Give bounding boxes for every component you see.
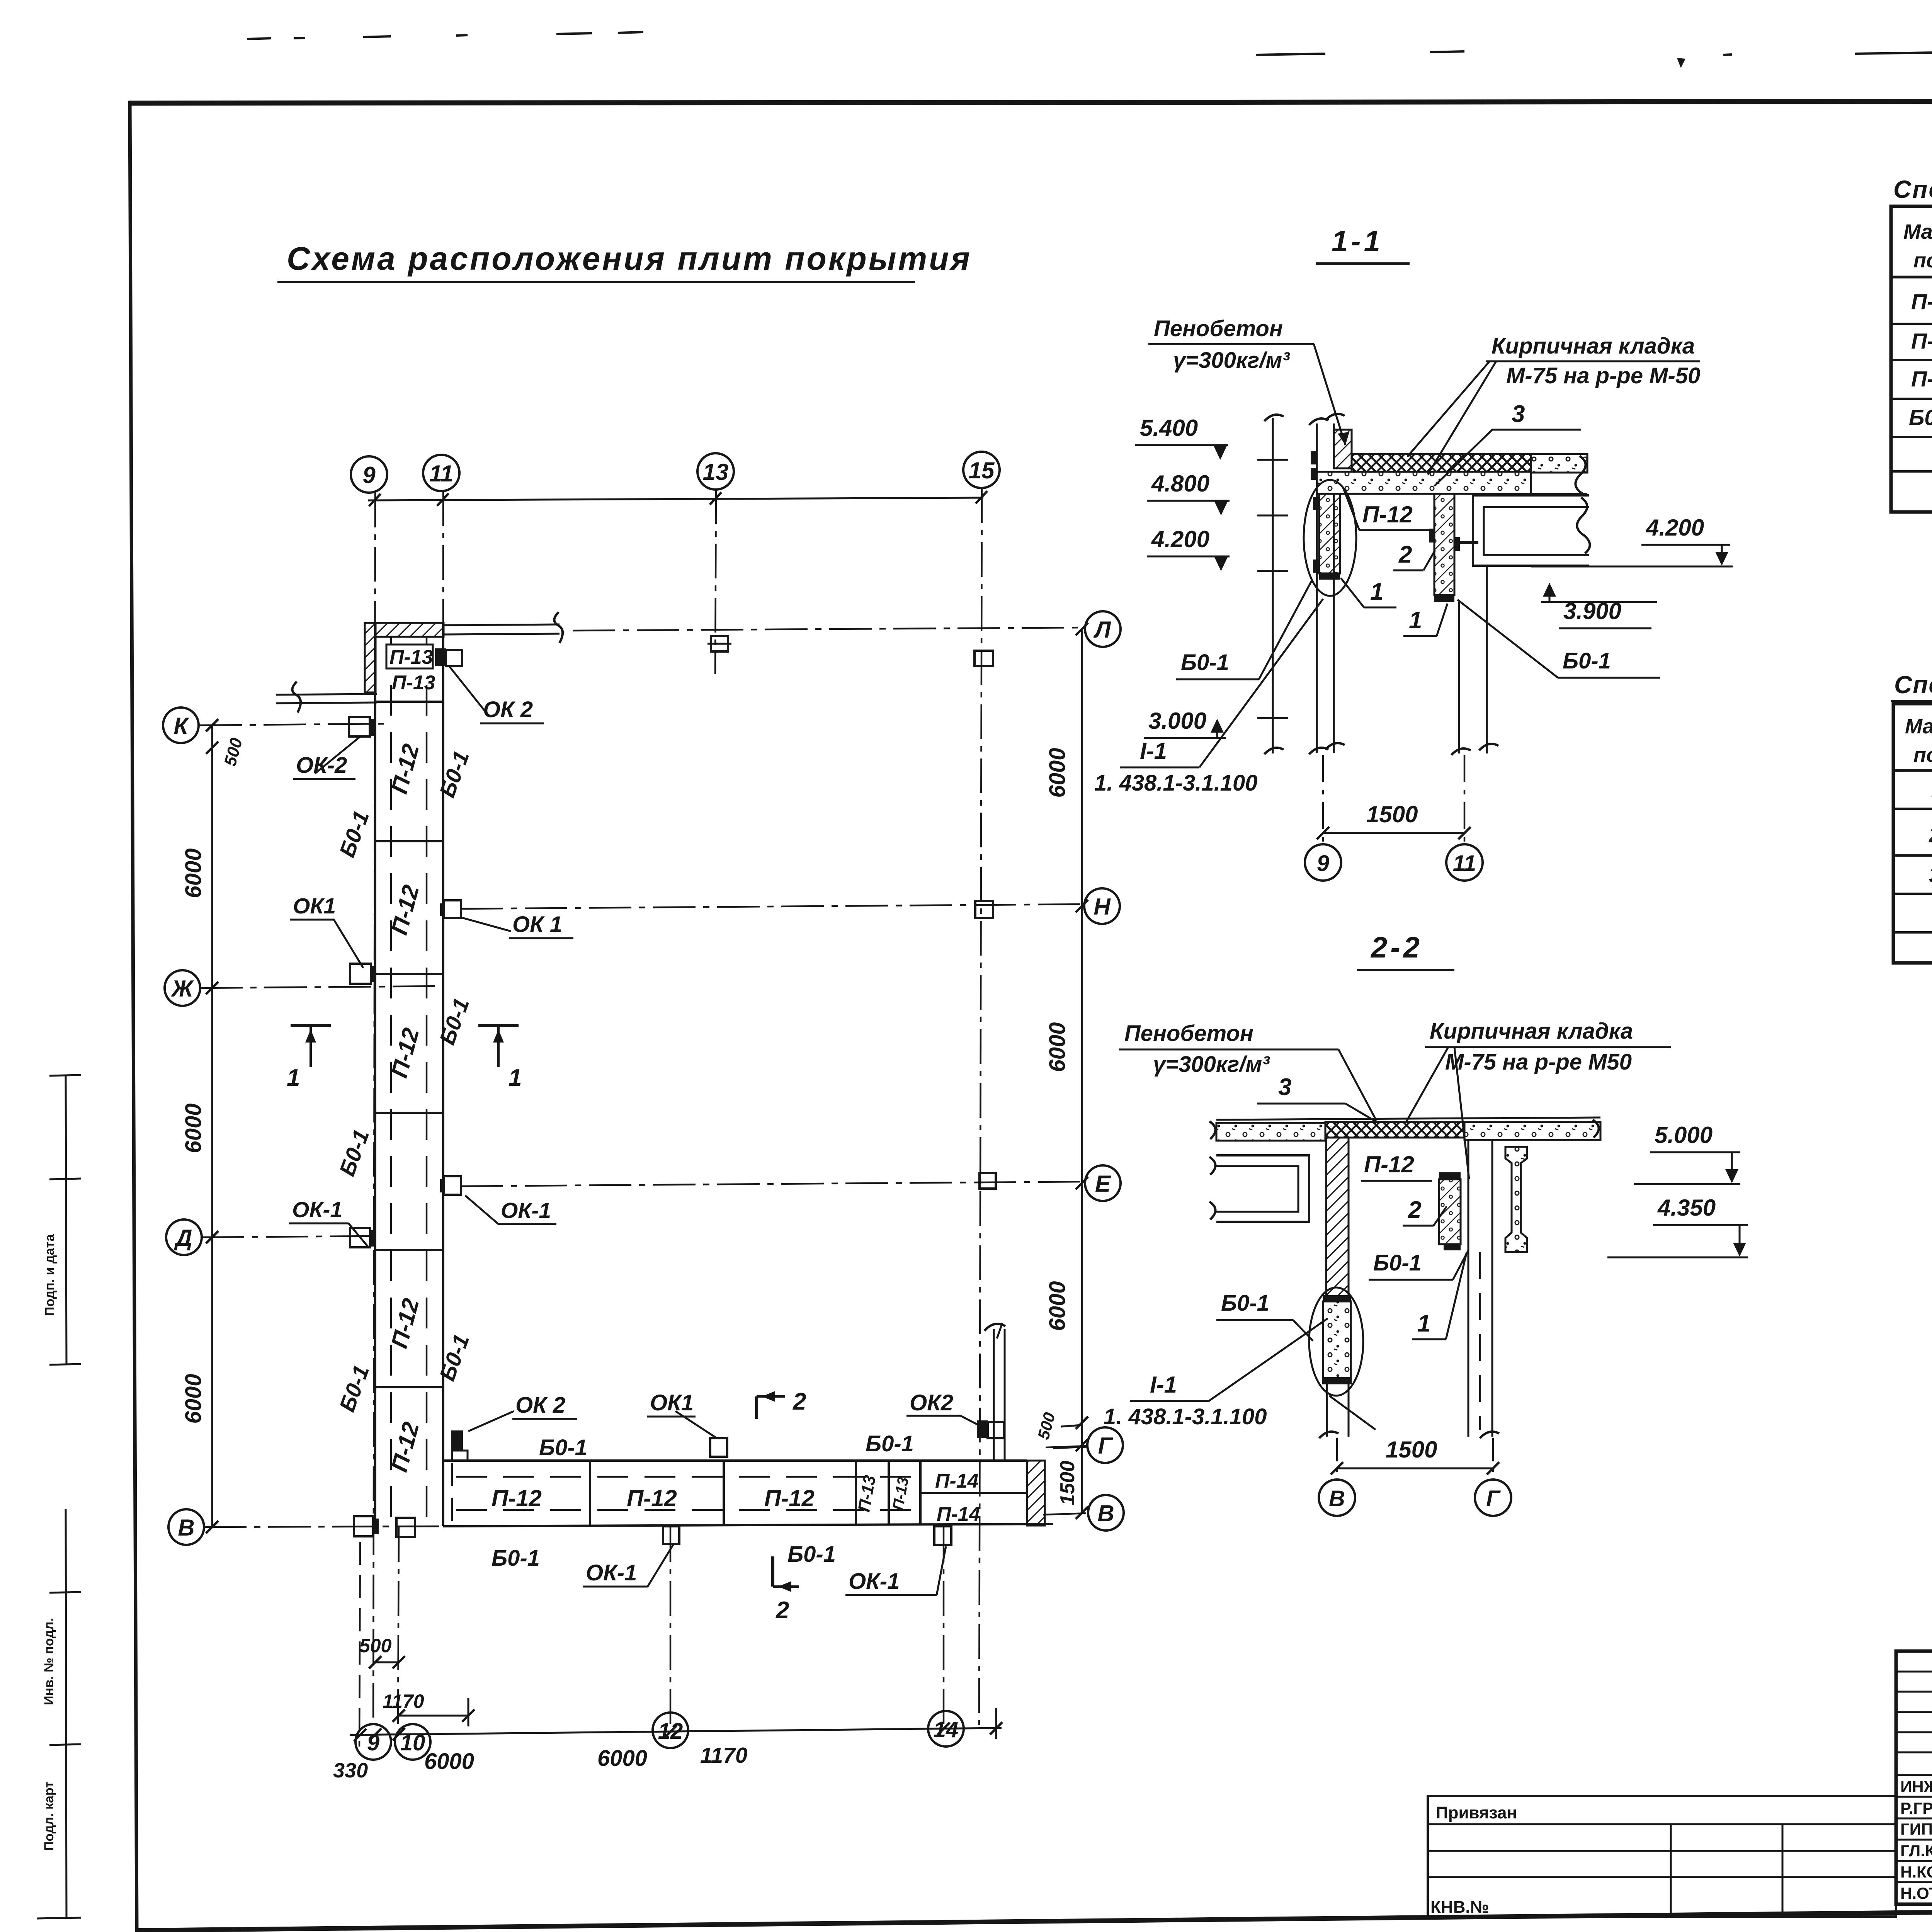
oval around left pier bbox=[1304, 480, 1356, 596]
section mark 1 right bbox=[478, 1024, 519, 1027]
left dimension line K-B bbox=[211, 725, 213, 1528]
svg-text:П-14: П-14 bbox=[1911, 367, 1932, 391]
connector square axis15/L bbox=[975, 651, 993, 666]
svg-text:4.200: 4.200 bbox=[1646, 515, 1704, 541]
axis circle 13 top bbox=[697, 453, 734, 490]
parapet pier hatched bbox=[1334, 430, 1352, 468]
privyazan box bbox=[1428, 1796, 1896, 1917]
right dimension line L-B bbox=[1081, 629, 1083, 1513]
wall lines above right end bbox=[993, 1329, 995, 1461]
svg-text:Привязан: Привязан bbox=[1436, 1803, 1517, 1822]
axis circle Zh bbox=[165, 970, 200, 1006]
table 2 grid bbox=[1893, 704, 1932, 963]
small arrow mark above border bbox=[1677, 58, 1685, 68]
axis K line bbox=[199, 724, 388, 725]
bottom strip dashed lines bbox=[456, 1476, 920, 1478]
axis circle B right bbox=[1088, 1495, 1124, 1531]
svg-text:ОК-1: ОК-1 bbox=[586, 1560, 637, 1585]
wall lines below center pier bbox=[1326, 1383, 1328, 1437]
axis E line bbox=[461, 1182, 1085, 1186]
svg-text:γ=300кг/м³: γ=300кг/м³ bbox=[1153, 1052, 1270, 1077]
svg-text:Д: Д bbox=[173, 1225, 192, 1251]
axis circle 9 top bbox=[351, 456, 387, 493]
right pier hatched 2 bbox=[1439, 1179, 1461, 1244]
svg-text:ОК 1: ОК 1 bbox=[512, 912, 562, 937]
svg-text:2: 2 bbox=[1929, 823, 1932, 847]
bottom slab strip bottom edge bbox=[443, 1524, 1053, 1526]
svg-text:Н.ОТД: Н.ОТД bbox=[1900, 1884, 1932, 1902]
connector OK2 bottom-left of strip bbox=[451, 1430, 463, 1450]
svg-text:1170: 1170 bbox=[383, 1690, 424, 1712]
center pier hatched bbox=[1326, 1138, 1349, 1301]
svg-text:15: 15 bbox=[969, 457, 995, 483]
bottom dim 500 bbox=[373, 1662, 400, 1663]
svg-text:1. 438.1-3.1.100: 1. 438.1-3.1.100 bbox=[1094, 770, 1257, 796]
svg-text:I-1: I-1 bbox=[1150, 1372, 1177, 1398]
slab concrete right bbox=[1464, 1122, 1600, 1140]
oval around center pier bbox=[1309, 1287, 1363, 1396]
axis circle B left bbox=[168, 1509, 204, 1545]
sheet left border bbox=[130, 101, 137, 1931]
svg-text:4.800: 4.800 bbox=[1151, 471, 1209, 497]
left beam BO-1 side view bbox=[1216, 1155, 1309, 1222]
svg-text:3: 3 bbox=[1512, 401, 1525, 427]
svg-text:Б0-1: Б0-1 bbox=[539, 1435, 587, 1460]
svg-text:П-14: П-14 bbox=[937, 1503, 980, 1526]
beam BO-1 stub along axis K bbox=[276, 694, 377, 695]
connector square axis15/N bbox=[975, 901, 993, 918]
top scan-edge dashes bbox=[247, 32, 1932, 55]
elevation 3.900 right bbox=[1541, 601, 1657, 603]
connector OK-1 at axis E bbox=[444, 1176, 461, 1195]
P-14 cell divider bbox=[920, 1492, 1027, 1494]
svg-text:ОК-1: ОК-1 bbox=[501, 1198, 551, 1223]
svg-text:1: 1 bbox=[1417, 1310, 1430, 1337]
svg-text:Подл. карт: Подл. карт bbox=[42, 1781, 56, 1851]
axis circle 14 bottom bbox=[928, 1711, 964, 1747]
svg-text:П-13: П-13 bbox=[392, 672, 435, 694]
axis circle B of section bbox=[1319, 1480, 1355, 1516]
svg-text:поз.: поз. bbox=[1913, 743, 1932, 767]
svg-text:6000: 6000 bbox=[1045, 748, 1070, 798]
axis circle G bbox=[1087, 1427, 1123, 1463]
svg-text:Б0-1: Б0-1 bbox=[787, 1542, 836, 1567]
bottom dim 1170 bbox=[399, 1715, 468, 1717]
svg-text:1500: 1500 bbox=[1056, 1461, 1079, 1505]
axis 10 vertical stub bottom bbox=[398, 1527, 399, 1727]
axis N line bbox=[461, 904, 1084, 909]
beam I-section bbox=[1505, 1147, 1527, 1252]
svg-text:Подп. и дата: Подп. и дата bbox=[43, 1234, 57, 1316]
svg-text:2: 2 bbox=[793, 1388, 806, 1415]
slab strip inner dashed lines bbox=[390, 638, 392, 1524]
small dim 500 right above G bbox=[1053, 1447, 1088, 1448]
axis 13 vertical line bbox=[715, 490, 716, 674]
label 1 below oval bbox=[1329, 1396, 1376, 1430]
left margin ticks and vertical rule bbox=[37, 1075, 81, 1918]
axis circle N bbox=[1084, 888, 1120, 924]
svg-text:9: 9 bbox=[1317, 851, 1329, 876]
axis circle 10 bottom bbox=[395, 1724, 430, 1760]
svg-text:1: 1 bbox=[287, 1065, 300, 1091]
svg-text:4.200: 4.200 bbox=[1151, 526, 1209, 552]
axis 12 line bottom bbox=[670, 1527, 672, 1731]
svg-text:14: 14 bbox=[934, 1717, 959, 1742]
bottom strip right wall hatch bbox=[1027, 1461, 1045, 1526]
axis circle 15 top bbox=[963, 452, 1000, 488]
connector OK2 bottom right bbox=[977, 1420, 988, 1438]
bottom main dimension chain bbox=[350, 1728, 1002, 1735]
axis circle 11 top bbox=[423, 455, 459, 491]
svg-text:1: 1 bbox=[1409, 607, 1422, 634]
svg-text:П-12: П-12 bbox=[1911, 289, 1932, 314]
svg-text:3: 3 bbox=[1929, 863, 1932, 888]
axis circle 12 bottom bbox=[653, 1713, 688, 1748]
svg-text:1170: 1170 bbox=[700, 1743, 748, 1768]
svg-text:Ж: Ж bbox=[170, 976, 194, 1002]
svg-text:Марка: Марка bbox=[1905, 715, 1932, 738]
svg-text:ОК1: ОК1 bbox=[650, 1390, 694, 1415]
axis stems 2-2 bbox=[1336, 1438, 1338, 1475]
svg-text:Б0-1: Б0-1 bbox=[1221, 1291, 1269, 1316]
title block outer bbox=[1896, 1651, 1932, 1904]
wall vertical lines bbox=[1316, 423, 1318, 753]
top dimension line 9-15 bbox=[368, 498, 983, 500]
svg-text:поз.: поз. bbox=[1913, 249, 1932, 272]
svg-text:П-12: П-12 bbox=[764, 1485, 815, 1511]
svg-text:П-12: П-12 bbox=[627, 1485, 677, 1511]
svg-text:1: 1 bbox=[1370, 578, 1383, 605]
svg-text:330: 330 bbox=[333, 1759, 368, 1782]
axis D line bbox=[202, 1236, 375, 1237]
axis circle K bbox=[163, 707, 199, 743]
svg-text:ОК-1: ОК-1 bbox=[292, 1197, 342, 1222]
sheet bottom border bbox=[135, 1904, 1932, 1930]
svg-text:Г: Г bbox=[1098, 1433, 1114, 1459]
svg-text:Кирпичная кладка: Кирпичная кладка bbox=[1430, 1019, 1633, 1044]
svg-text:Спецификация стальных элемен: Спецификация стальных элементов креплени… bbox=[1894, 671, 1932, 699]
svg-text:Кирпичная кладка: Кирпичная кладка bbox=[1492, 333, 1695, 359]
svg-text:ОК-2: ОК-2 bbox=[296, 753, 347, 778]
svg-text:П-12: П-12 bbox=[492, 1485, 542, 1511]
svg-text:П-14: П-14 bbox=[935, 1470, 979, 1492]
axis circle D bbox=[166, 1219, 202, 1255]
svg-text:3.000: 3.000 bbox=[1148, 708, 1206, 734]
connector square axis15/E bbox=[980, 1173, 996, 1189]
svg-text:2: 2 bbox=[1398, 541, 1412, 568]
slab strip right edge bbox=[442, 623, 444, 1526]
svg-text:ГЛ.КОНСТ: ГЛ.КОНСТ bbox=[1900, 1842, 1932, 1860]
axis circle L bbox=[1085, 611, 1121, 647]
svg-text:В: В bbox=[178, 1515, 194, 1541]
right wall lines bbox=[1468, 1140, 1469, 1437]
svg-text:Инв. № подл.: Инв. № подл. bbox=[42, 1618, 56, 1705]
svg-text:6000: 6000 bbox=[597, 1746, 647, 1771]
axis B line bbox=[204, 1526, 448, 1527]
svg-text:Пенобетон: Пенобетон bbox=[1124, 1021, 1253, 1046]
svg-text:6000: 6000 bbox=[424, 1749, 474, 1774]
svg-text:1. 438.1-3.1.100: 1. 438.1-3.1.100 bbox=[1104, 1404, 1267, 1429]
svg-text:П-12: П-12 bbox=[1364, 1151, 1414, 1177]
svg-text:П-12: П-12 bbox=[1362, 502, 1413, 527]
slab concrete band (dots) bbox=[1317, 472, 1531, 494]
svg-text:Б0-1: Б0-1 bbox=[492, 1546, 540, 1571]
bottom slab strip top edge bbox=[443, 1459, 1027, 1462]
svg-text:КНВ.№: КНВ.№ bbox=[1430, 1898, 1489, 1917]
svg-text:Б0-1: Б0-1 bbox=[1909, 405, 1932, 430]
svg-text:П-13: П-13 bbox=[1911, 329, 1932, 354]
section mark 1 left bbox=[291, 1024, 331, 1027]
axis circle 9 bottom bbox=[355, 1724, 391, 1760]
svg-text:ОК 2: ОК 2 bbox=[483, 697, 533, 722]
axis circle G of section bbox=[1475, 1480, 1511, 1516]
svg-text:Схема расположения плит покры: Схема расположения плит покрытия bbox=[287, 240, 972, 277]
beam BO-1 side view bbox=[1473, 495, 1589, 566]
svg-text:ОК-1: ОК-1 bbox=[849, 1569, 900, 1594]
slab P-13 box bbox=[386, 645, 433, 668]
svg-text:Б0-1: Б0-1 bbox=[866, 1431, 914, 1456]
svg-text:4.350: 4.350 bbox=[1657, 1195, 1716, 1221]
center pier BO-1 end block bbox=[1323, 1301, 1351, 1383]
svg-text:Б0-1: Б0-1 bbox=[1373, 1250, 1422, 1276]
svg-text:11: 11 bbox=[429, 461, 453, 486]
svg-text:1500: 1500 bbox=[1386, 1437, 1437, 1463]
svg-text:В: В bbox=[1329, 1486, 1345, 1511]
slab separators bbox=[375, 702, 443, 1387]
svg-text:10: 10 bbox=[400, 1730, 425, 1755]
svg-text:2-2: 2-2 bbox=[1370, 931, 1423, 964]
svg-text:9: 9 bbox=[362, 462, 376, 488]
section mark 2 bottom bbox=[771, 1556, 774, 1587]
small black anchors on wall bbox=[1311, 451, 1317, 464]
right pier hatched bbox=[1434, 494, 1454, 595]
connector squares at axis B left bbox=[354, 1516, 373, 1536]
left dimension line of section bbox=[1272, 418, 1274, 753]
svg-text:Б0-1: Б0-1 bbox=[1563, 648, 1611, 673]
axis 14 line bottom bbox=[943, 1527, 945, 1729]
axis L line bbox=[573, 628, 1084, 631]
svg-text:ОК1: ОК1 bbox=[293, 894, 336, 918]
beam BO-1 along axis L bbox=[444, 624, 560, 625]
stamp thin top rows bbox=[1896, 1672, 1932, 1882]
connector OK1 bottom mid bbox=[710, 1438, 727, 1457]
svg-text:I-1: I-1 bbox=[1140, 738, 1167, 764]
svg-text:6000: 6000 bbox=[1045, 1281, 1070, 1331]
section mark 2 top bbox=[755, 1396, 758, 1419]
slab top line bbox=[1216, 1117, 1600, 1120]
svg-text:П-13: П-13 bbox=[389, 646, 433, 668]
svg-text:ГИП: ГИП bbox=[1900, 1820, 1932, 1838]
svg-text:Спецификация элементов железо: Спецификация элементов железобетонных ко… bbox=[1893, 175, 1932, 203]
axis stems to circles bbox=[1322, 755, 1324, 842]
svg-text:Л: Л bbox=[1093, 617, 1111, 643]
table 1 grid bbox=[1891, 206, 1932, 512]
svg-text:9: 9 bbox=[367, 1730, 379, 1755]
axis 9 vertical line bbox=[373, 493, 375, 1723]
svg-text:1-1: 1-1 bbox=[1332, 225, 1383, 258]
section dim 1500 bbox=[1323, 832, 1464, 834]
svg-text:М-75 на р-ре М50: М-75 на р-ре М50 bbox=[1445, 1049, 1632, 1075]
svg-text:3: 3 bbox=[1278, 1074, 1291, 1100]
stamp roles and names bbox=[1900, 1777, 1932, 1902]
svg-text:Марка,: Марка, bbox=[1903, 220, 1932, 243]
svg-text:13: 13 bbox=[703, 459, 729, 485]
slab right continuation bbox=[1531, 454, 1587, 473]
svg-text:ИНЖ.: ИНЖ. bbox=[1900, 1777, 1932, 1796]
svg-text:К: К bbox=[174, 713, 190, 739]
connector OK1 at axis N bbox=[444, 900, 461, 918]
svg-text:Е: Е bbox=[1095, 1171, 1111, 1197]
svg-text:Р.ГРУП.: Р.ГРУП. bbox=[1900, 1799, 1932, 1817]
svg-text:ОК2: ОК2 bbox=[910, 1390, 953, 1415]
corner slab hatch band bbox=[376, 623, 444, 637]
axis 15 vertical line bbox=[979, 488, 982, 1727]
title underline bbox=[277, 281, 915, 283]
svg-text:γ=300кг/м³: γ=300кг/м³ bbox=[1173, 348, 1290, 373]
axis 11 vertical stub bbox=[442, 491, 444, 624]
svg-text:ОК 2: ОК 2 bbox=[515, 1393, 565, 1418]
svg-text:Б0-1: Б0-1 bbox=[1181, 650, 1229, 675]
sheet top border bbox=[129, 101, 1932, 103]
svg-text:3.900: 3.900 bbox=[1563, 598, 1621, 624]
axis circle 9 of section bbox=[1305, 844, 1341, 881]
svg-text:1: 1 bbox=[509, 1065, 522, 1091]
wall lines below beam bbox=[1458, 602, 1460, 753]
svg-text:1500: 1500 bbox=[1366, 801, 1418, 827]
connector OK2 at P-13 bbox=[435, 648, 446, 666]
svg-text:11: 11 bbox=[1453, 851, 1476, 876]
svg-text:6000: 6000 bbox=[181, 1374, 206, 1423]
svg-text:Г: Г bbox=[1486, 1486, 1501, 1511]
connector square axis13/L bbox=[711, 636, 728, 651]
svg-text:Н.КОНТР: Н.КОНТР bbox=[1900, 1863, 1932, 1881]
svg-text:М-75 на р-ре М-50: М-75 на р-ре М-50 bbox=[1506, 363, 1700, 388]
corner wall hatch vertical bbox=[365, 623, 376, 692]
axis circle E bbox=[1085, 1165, 1121, 1201]
svg-text:500: 500 bbox=[359, 1635, 392, 1656]
svg-text:Н: Н bbox=[1094, 894, 1111, 920]
axis G right stub bbox=[1046, 1446, 1087, 1447]
svg-text:5.000: 5.000 bbox=[1655, 1122, 1713, 1148]
axis circle 11 of section bbox=[1446, 844, 1483, 881]
slab concrete left bbox=[1216, 1123, 1325, 1141]
svg-text:5.400: 5.400 bbox=[1140, 415, 1198, 441]
svg-text:В: В bbox=[1097, 1500, 1114, 1526]
slab brick band (cross hatch) bbox=[1352, 454, 1531, 472]
section dim 1500 of 2-2 bbox=[1337, 1468, 1493, 1469]
connector OK-2 at axis K bbox=[349, 717, 370, 736]
slab strip left edge bbox=[374, 623, 376, 1527]
axis Zh line bbox=[200, 986, 443, 988]
svg-text:6000: 6000 bbox=[181, 848, 206, 898]
svg-text:2: 2 bbox=[1408, 1197, 1421, 1223]
bottom strip separators bbox=[590, 1461, 920, 1526]
left pier BO-1 end bbox=[1319, 494, 1340, 573]
slab brick band 2 bbox=[1325, 1122, 1464, 1138]
svg-text:Пенобетон: Пенобетон bbox=[1154, 316, 1283, 341]
svg-text:2: 2 bbox=[776, 1597, 789, 1624]
svg-text:6000: 6000 bbox=[181, 1103, 206, 1153]
svg-text:6000: 6000 bbox=[1045, 1022, 1070, 1072]
